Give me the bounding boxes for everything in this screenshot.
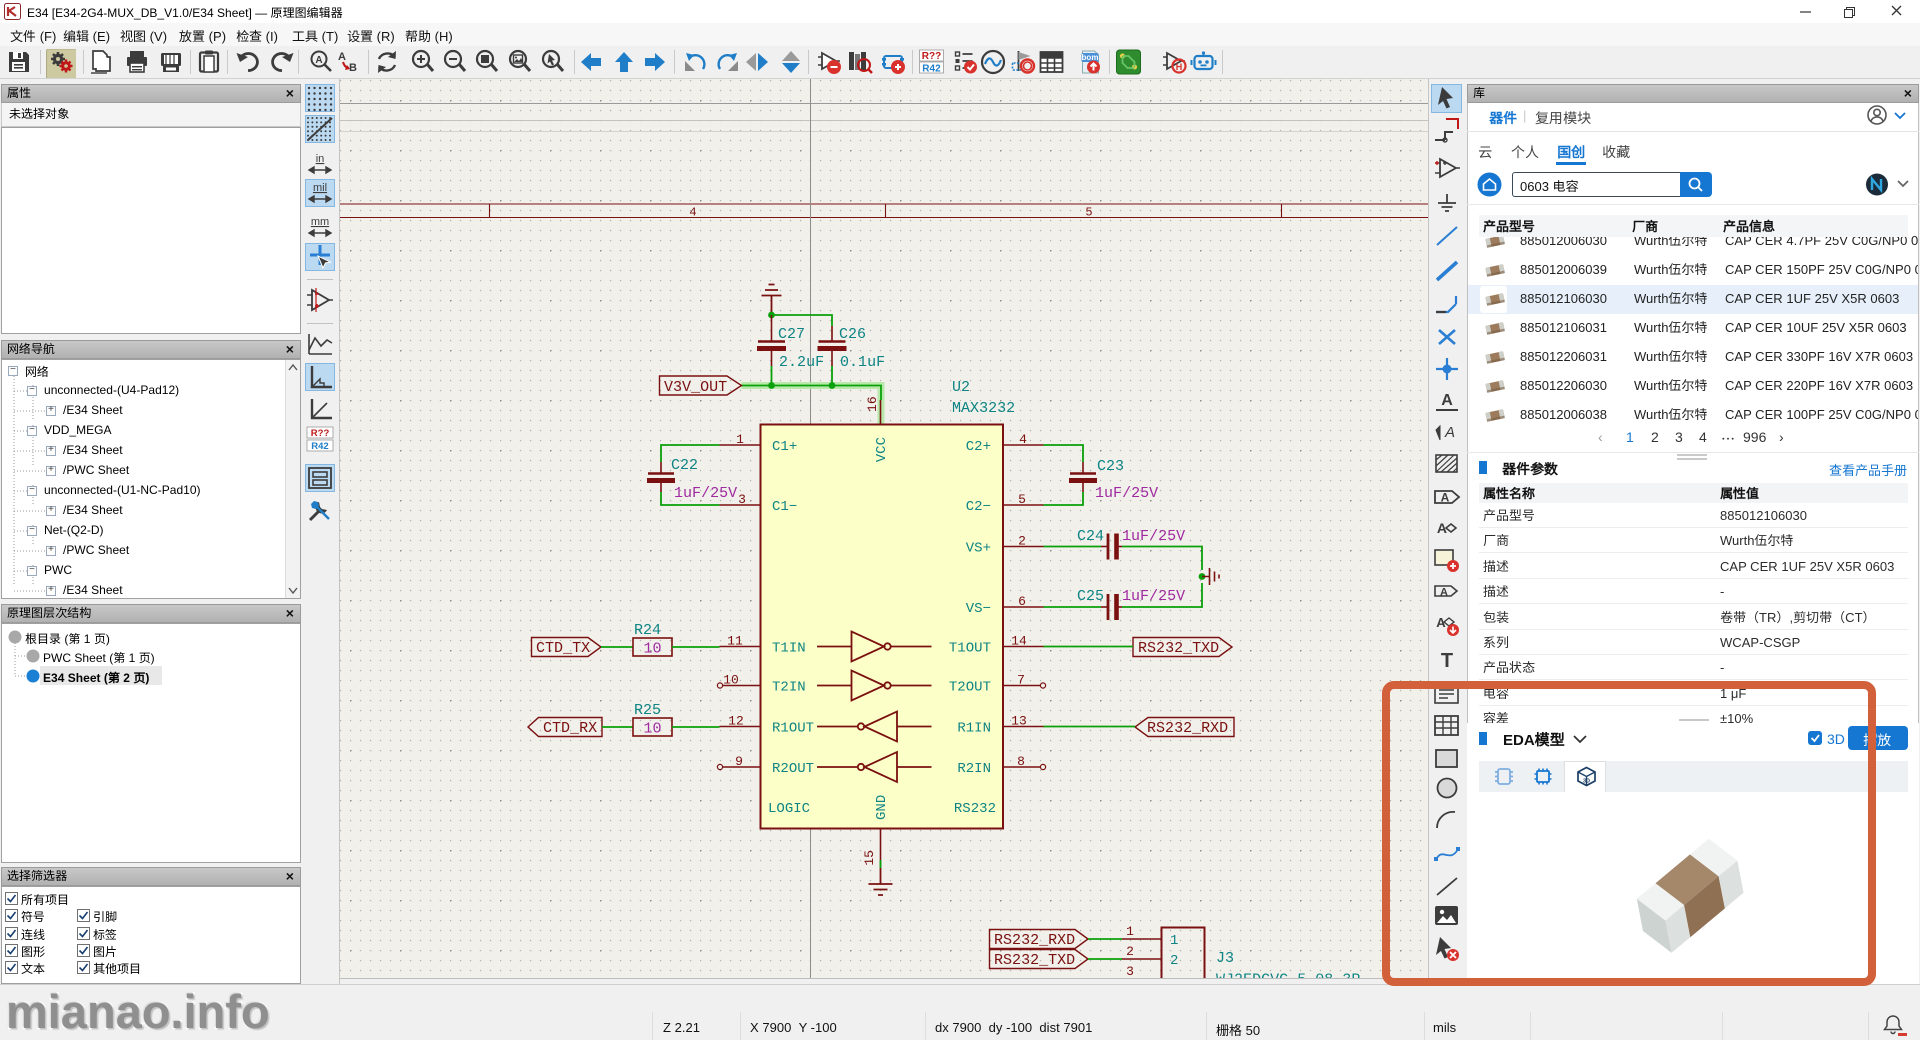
wire: [672, 646, 720, 648]
wire: [1044, 492, 1084, 505]
library panel: [1466, 79, 1920, 984]
U2 pins: [720, 444, 761, 446]
wire: [831, 366, 833, 386]
global label RS232_TXD j3: [990, 950, 1089, 969]
highlighted net V3V_OUT: [742, 386, 882, 426]
svg-text:1uF/25V: 1uF/25V: [1122, 588, 1185, 605]
svg-text:RS232_RXD: RS232_RXD: [1147, 720, 1228, 737]
svg-text:C22: C22: [671, 457, 698, 474]
svg-text:R??: R??: [922, 51, 942, 62]
status bar: [0, 984, 1920, 1040]
wire: [661, 492, 720, 505]
svg-text:U2: U2: [952, 379, 970, 396]
svg-text:RS232_TXD: RS232_TXD: [1138, 640, 1219, 657]
svg-text:6: 6: [1018, 594, 1026, 609]
title bar: [0, 0, 1920, 23]
svg-text:2.2uF: 2.2uF: [779, 354, 824, 371]
wire: [1088, 958, 1122, 960]
capacitor C24: [1101, 534, 1122, 560]
watermark mianao.info: [6, 984, 270, 1039]
wire: [771, 366, 773, 386]
ground GND bottom: [869, 868, 893, 895]
svg-text:A: A: [1441, 392, 1453, 409]
menu bar: [0, 23, 1920, 46]
svg-text:10: 10: [643, 641, 661, 658]
svg-text:5: 5: [1085, 206, 1092, 220]
svg-text:CTD_TX: CTD_TX: [536, 640, 590, 657]
global label RS232_RXD: [1135, 718, 1234, 737]
svg-text:A: A: [338, 51, 346, 63]
wire: [1122, 547, 1202, 571]
svg-text:T1OUT: T1OUT: [949, 641, 991, 657]
svg-text:0.1uF: 0.1uF: [840, 354, 885, 371]
junction: [829, 382, 836, 389]
ground GND top: [762, 285, 782, 316]
svg-text:14: 14: [1011, 634, 1027, 649]
svg-text:R42: R42: [922, 64, 941, 75]
device params: [1479, 461, 1487, 474]
svg-text:8: 8: [1017, 754, 1025, 769]
connector J3: [1162, 928, 1205, 990]
junction: [768, 382, 775, 389]
svg-text:T2OUT: T2OUT: [949, 680, 991, 696]
svg-text:C27: C27: [778, 326, 805, 343]
wire: [1044, 726, 1136, 728]
cursor crosshair: [810, 79, 812, 979]
svg-text:GND: GND: [874, 795, 890, 820]
svg-text:R2IN: R2IN: [957, 761, 991, 777]
svg-text:mil: mil: [313, 182, 327, 194]
op-amp U2 MAX3232 body: [761, 425, 1004, 829]
svg-text:C24: C24: [1077, 528, 1104, 545]
frame row border: [340, 204, 1428, 218]
svg-text:10: 10: [643, 721, 661, 738]
svg-text:RS232_RXD: RS232_RXD: [994, 932, 1075, 949]
global label CTD_RX: [528, 718, 602, 737]
global label CTD_TX: [532, 638, 602, 657]
svg-text:13: 13: [1011, 714, 1027, 729]
wire: [1044, 606, 1102, 608]
svg-text:2: 2: [1126, 944, 1134, 959]
svg-text:11: 11: [727, 634, 743, 649]
svg-text:VS+: VS+: [966, 541, 991, 557]
svg-text:CTD_RX: CTD_RX: [543, 720, 597, 737]
resistor R24: [633, 638, 672, 656]
svg-text:V3V_OUT: V3V_OUT: [664, 379, 727, 396]
svg-text:R24: R24: [634, 622, 661, 639]
svg-text:R2OUT: R2OUT: [772, 761, 814, 777]
svg-text:2: 2: [1018, 534, 1026, 549]
U2 buffers T1 T2 R1 R2: [817, 632, 932, 783]
search row: [1477, 172, 1502, 197]
svg-text:MAX3232: MAX3232: [952, 400, 1015, 417]
sheet top gray lines: [340, 103, 1428, 105]
selection filter panel: [1, 867, 301, 886]
wire: [1044, 546, 1102, 548]
wire: [742, 386, 882, 401]
svg-text:RS232: RS232: [954, 801, 996, 817]
svg-text:VCC: VCC: [874, 437, 890, 462]
ground right: [1202, 568, 1219, 585]
svg-text:T2IN: T2IN: [772, 680, 806, 696]
svg-text:LOGIC: LOGIC: [768, 801, 810, 817]
svg-text:C1+: C1+: [772, 439, 797, 455]
svg-text:1: 1: [1126, 924, 1134, 939]
svg-text:WJ2EDGVC−5.08−3P: WJ2EDGVC−5.08−3P: [1216, 972, 1360, 980]
model tabs: [1479, 761, 1908, 792]
svg-text:T1IN: T1IN: [772, 641, 806, 657]
sub tabs: [1478, 142, 1492, 162]
svg-text:C23: C23: [1097, 458, 1124, 475]
left dock background: [0, 79, 303, 984]
junction: [768, 312, 775, 319]
svg-text:4: 4: [689, 206, 696, 220]
svg-text:C26: C26: [839, 326, 866, 343]
svg-text:C2+: C2+: [966, 439, 991, 455]
svg-text:5: 5: [1018, 492, 1026, 507]
tabs: [1489, 108, 1517, 128]
resistor R25: [633, 718, 672, 736]
wire: [772, 315, 833, 326]
capacitor C27: [757, 315, 786, 366]
junction: [1199, 573, 1206, 580]
svg-text:10: 10: [723, 673, 739, 688]
global label RS232_RXD j3: [990, 930, 1089, 949]
capacitor C23: [1069, 462, 1097, 492]
svg-text:3: 3: [1126, 964, 1134, 979]
svg-text:3: 3: [738, 492, 746, 507]
svg-text:T: T: [1441, 650, 1453, 672]
capacitor C22: [647, 462, 675, 492]
svg-text:1uF/25V: 1uF/25V: [674, 485, 737, 502]
properties panel: [1, 84, 301, 103]
3D capacitor model: [1637, 839, 1744, 953]
svg-text:R1IN: R1IN: [957, 721, 991, 737]
svg-text:4: 4: [1019, 432, 1027, 447]
wire: [602, 726, 633, 728]
net navigator panel: [1, 340, 301, 359]
svg-text:C1−: C1−: [772, 499, 797, 515]
EDA model: [1467, 723, 1919, 984]
wire: [661, 445, 720, 462]
wire: [1044, 646, 1134, 648]
svg-text:J3: J3: [1216, 950, 1234, 967]
svg-text:H: H: [1176, 62, 1183, 72]
svg-text:A: A: [1444, 424, 1455, 441]
svg-text:RS232_TXD: RS232_TXD: [994, 952, 1075, 969]
capacitor C25: [1101, 594, 1122, 620]
svg-text:R1OUT: R1OUT: [772, 721, 814, 737]
svg-text:C2−: C2−: [966, 499, 991, 515]
wire: [1044, 445, 1084, 462]
svg-text:bom: bom: [1082, 53, 1099, 62]
svg-text:mm: mm: [311, 216, 329, 228]
results table: [1468, 230, 1918, 423]
svg-text:A: A: [315, 55, 322, 66]
wire: [1122, 583, 1202, 607]
svg-text:1uF/25V: 1uF/25V: [1122, 528, 1185, 545]
svg-text:B: B: [349, 62, 357, 74]
orange highlight rectangle: [1382, 681, 1876, 986]
svg-text:R??: R??: [311, 428, 330, 439]
svg-text:9: 9: [735, 754, 743, 769]
svg-text:R25: R25: [634, 702, 661, 719]
global label RS232_TXD: [1133, 638, 1232, 657]
wire: [601, 646, 633, 648]
svg-text:1uF/25V: 1uF/25V: [1095, 485, 1158, 502]
wire: [880, 860, 882, 868]
svg-text:12: 12: [728, 714, 744, 729]
svg-text:16: 16: [865, 396, 880, 412]
svg-text:C25: C25: [1077, 588, 1104, 605]
global label V3V_OUT: [660, 376, 742, 395]
svg-text:2: 2: [1170, 953, 1178, 969]
wire: [1088, 938, 1122, 940]
wire: [672, 726, 720, 728]
svg-text:A: A: [1440, 587, 1448, 599]
3D viewport: [1479, 792, 1908, 962]
svg-text:in: in: [316, 153, 325, 165]
svg-text:15: 15: [862, 850, 877, 866]
svg-text:VS−: VS−: [966, 601, 991, 617]
svg-text:7: 7: [1017, 673, 1025, 688]
capacitor C26: [818, 326, 847, 366]
svg-text:1: 1: [736, 432, 744, 447]
svg-text:A: A: [1441, 491, 1450, 505]
svg-text:R42: R42: [311, 441, 329, 452]
svg-text:1: 1: [1170, 933, 1178, 949]
